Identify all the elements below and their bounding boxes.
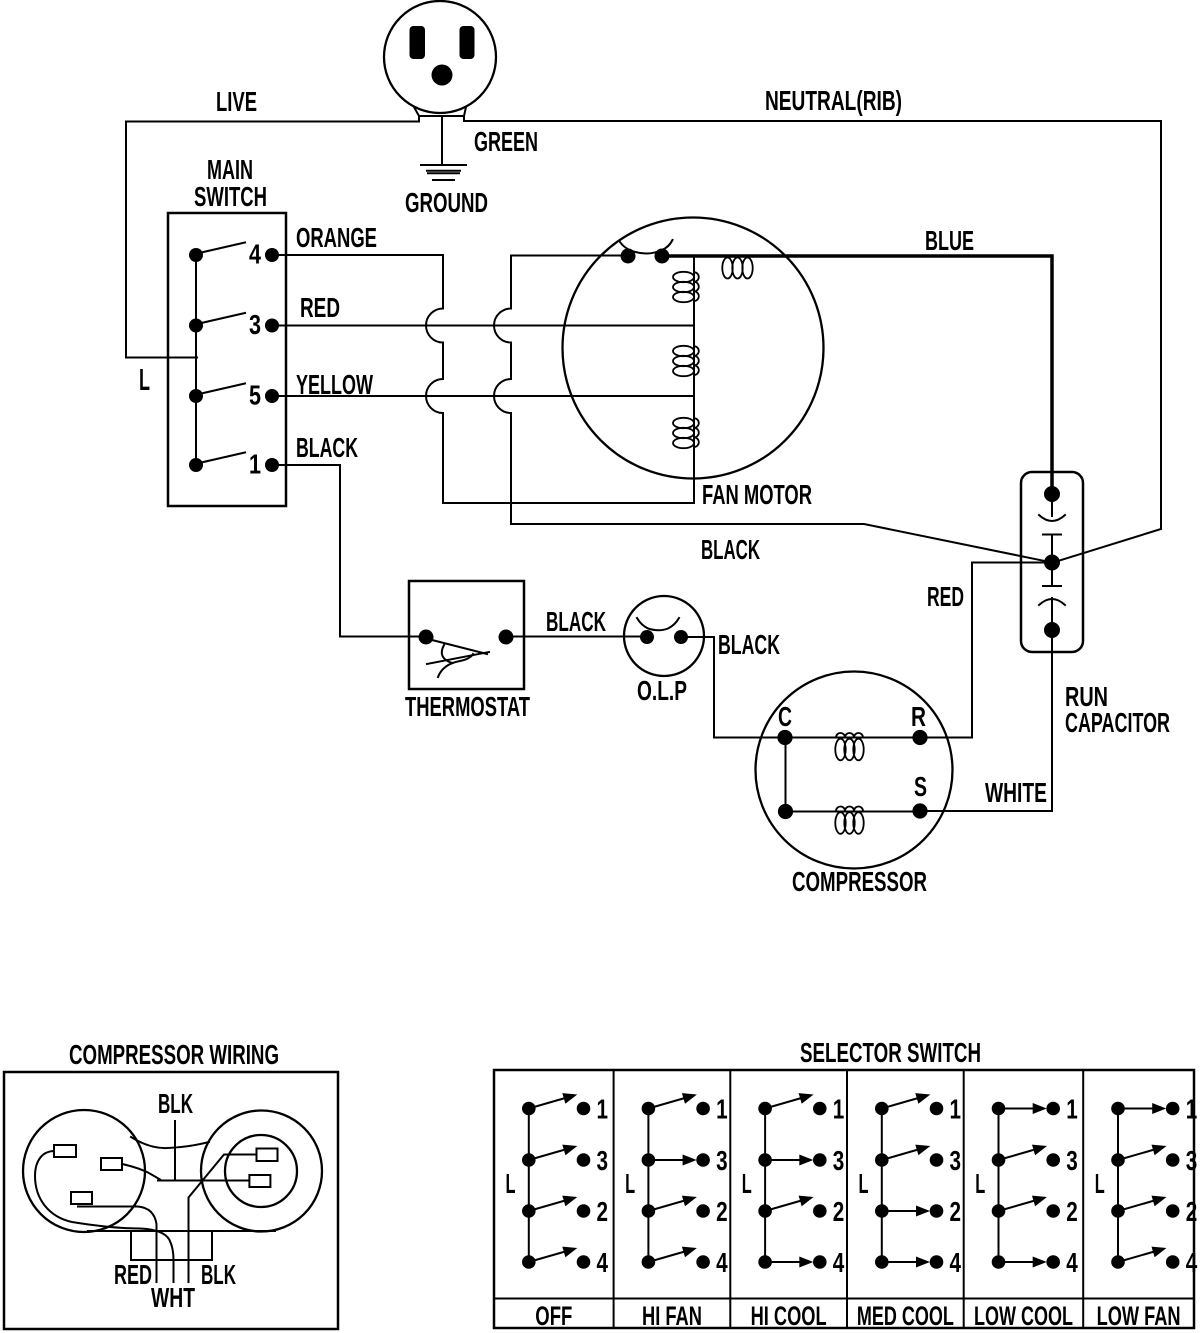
selector position MED COOL xyxy=(857,1093,961,1331)
run capacitor terminals and plates xyxy=(1044,486,1060,502)
svg-text:1: 1 xyxy=(1066,1093,1078,1124)
svg-text:HI COOL: HI COOL xyxy=(751,1301,827,1331)
compressor plug right inner circle xyxy=(225,1135,297,1207)
svg-text:ORANGE: ORANGE xyxy=(296,222,377,253)
wire BLACK (contact 1 to thermostat) xyxy=(272,465,426,637)
wire BLACK (fan motor switch to run capacitor middle, hops over red+yellow) xyxy=(494,256,1052,563)
selector position LOW COOL xyxy=(974,1093,1078,1331)
terminal lug bottom-left xyxy=(71,1192,92,1204)
svg-text:2: 2 xyxy=(1186,1196,1198,1227)
svg-text:GREEN: GREEN xyxy=(474,126,538,157)
svg-text:L: L xyxy=(1095,1168,1105,1199)
fan motor main winding line xyxy=(693,257,695,503)
svg-text:BLUE: BLUE xyxy=(925,225,974,256)
svg-text:1: 1 xyxy=(950,1093,962,1124)
wire LIVE from plug to main switch xyxy=(126,122,419,358)
svg-text:3: 3 xyxy=(249,309,261,340)
svg-text:3: 3 xyxy=(1066,1145,1078,1176)
wire BLACK thermostat to O.L.P xyxy=(506,636,647,638)
wire RED compressor R to run capacitor middle xyxy=(920,563,1052,738)
svg-text:L: L xyxy=(742,1168,752,1199)
plug body saddle curve xyxy=(131,1137,209,1148)
compressor start winding xyxy=(786,738,921,812)
svg-text:2: 2 xyxy=(833,1196,845,1227)
compressor wiring panel box xyxy=(4,1072,338,1329)
svg-text:RED: RED xyxy=(300,292,340,323)
plug body bottom line xyxy=(88,1230,275,1232)
thermostat box xyxy=(409,581,524,689)
svg-text:BLK: BLK xyxy=(201,1259,236,1290)
svg-text:1: 1 xyxy=(716,1093,728,1124)
compressor terminals C R S xyxy=(777,730,792,745)
svg-text:FAN MOTOR: FAN MOTOR xyxy=(702,479,812,510)
svg-text:3: 3 xyxy=(597,1145,609,1176)
svg-text:BLK: BLK xyxy=(158,1088,193,1119)
thermostat bimetal symbol xyxy=(432,640,487,654)
wire junction horizontal xyxy=(158,1180,249,1182)
fan motor internal thermal switch contacts xyxy=(621,249,636,264)
svg-text:L: L xyxy=(139,362,150,397)
svg-text:MED COOL: MED COOL xyxy=(857,1301,954,1331)
terminal lug right-top xyxy=(257,1149,278,1162)
svg-text:2: 2 xyxy=(950,1196,962,1227)
svg-text:SELECTOR SWITCH: SELECTOR SWITCH xyxy=(800,1037,981,1068)
svg-text:3: 3 xyxy=(1186,1145,1198,1176)
selector position OFF xyxy=(506,1093,609,1331)
svg-text:SWITCH: SWITCH xyxy=(194,181,267,212)
svg-text:RED: RED xyxy=(114,1259,152,1290)
svg-text:YELLOW: YELLOW xyxy=(296,369,373,400)
compressor plug left circle xyxy=(23,1110,145,1232)
svg-text:THERMOSTAT: THERMOSTAT xyxy=(405,691,530,722)
svg-text:HI FAN: HI FAN xyxy=(642,1301,702,1331)
compressor run winding C-R xyxy=(785,737,920,739)
svg-text:GROUND: GROUND xyxy=(405,187,488,218)
svg-text:L: L xyxy=(625,1168,635,1199)
svg-text:L: L xyxy=(975,1168,985,1199)
svg-text:3: 3 xyxy=(950,1145,962,1176)
power plug (wall outlet face) xyxy=(384,1,496,122)
compressor circle xyxy=(756,672,953,869)
wire YELLOW (contact 5 to fan motor winding tap) xyxy=(272,395,694,397)
fan motor winding coils xyxy=(673,272,694,282)
svg-text:COMPRESSOR WIRING: COMPRESSOR WIRING xyxy=(69,1039,279,1070)
wire from middle lug to junction xyxy=(122,1164,160,1180)
svg-text:4: 4 xyxy=(833,1247,845,1278)
svg-text:4: 4 xyxy=(716,1247,728,1278)
wire WHITE compressor S to run capacitor bottom xyxy=(920,630,1052,811)
svg-text:3: 3 xyxy=(716,1145,728,1176)
run capacitor body xyxy=(1021,472,1083,652)
selector switch table frame xyxy=(494,1070,1194,1328)
svg-text:1: 1 xyxy=(249,449,261,480)
svg-text:LOW FAN: LOW FAN xyxy=(1097,1301,1181,1331)
svg-text:RED: RED xyxy=(927,581,964,612)
svg-text:4: 4 xyxy=(1186,1247,1198,1278)
svg-text:2: 2 xyxy=(597,1196,609,1227)
svg-text:BLACK: BLACK xyxy=(546,606,606,637)
svg-text:LIVE: LIVE xyxy=(216,86,257,117)
wire BLACK O.L.P to compressor C xyxy=(681,637,785,738)
ground symbol xyxy=(421,116,466,180)
svg-text:BLACK: BLACK xyxy=(296,432,358,463)
main switch contacts and arms xyxy=(189,248,203,262)
cable clamp rectangle xyxy=(131,1231,212,1260)
wire RED from bottom-left lug xyxy=(78,1207,157,1283)
svg-text:1: 1 xyxy=(1186,1093,1198,1124)
svg-text:4: 4 xyxy=(249,239,261,270)
terminal lug middle xyxy=(101,1158,122,1170)
svg-text:LOW COOL: LOW COOL xyxy=(974,1301,1073,1331)
svg-text:4: 4 xyxy=(597,1247,609,1278)
svg-text:CAPACITOR: CAPACITOR xyxy=(1065,707,1170,738)
main switch common bus xyxy=(195,255,197,465)
wire BLUE (fan motor to run capacitor top) with coil xyxy=(662,256,1052,486)
svg-text:1: 1 xyxy=(597,1093,609,1124)
wire ORANGE (contact 4 to fan motor common, hops over red+yellow) xyxy=(272,255,694,503)
wire NEUTRAL(RIB) from plug to run capacitor xyxy=(464,121,1161,563)
svg-text:WHITE: WHITE xyxy=(985,777,1047,808)
svg-text:3: 3 xyxy=(833,1145,845,1176)
svg-text:BLACK: BLACK xyxy=(701,534,760,565)
wire RED (contact 3 to fan motor winding tap) xyxy=(272,325,694,327)
main switch box xyxy=(168,213,286,506)
wire BLK top vertical xyxy=(174,1121,176,1180)
wire BLK diagonal from right-top lug down xyxy=(189,1155,257,1283)
selector position LOW FAN xyxy=(1095,1093,1198,1331)
terminal lug top-left xyxy=(54,1145,76,1157)
compressor plug right outer circle xyxy=(201,1111,322,1232)
svg-text:4: 4 xyxy=(950,1247,962,1278)
svg-text:BLACK: BLACK xyxy=(718,629,780,660)
svg-text:WHT: WHT xyxy=(151,1282,195,1313)
wire WHT (curl around left circle to bottom) xyxy=(35,1151,174,1282)
svg-text:S: S xyxy=(914,771,927,802)
svg-text:4: 4 xyxy=(1066,1247,1078,1278)
O.L.P overload protector xyxy=(624,596,704,676)
svg-text:OFF: OFF xyxy=(535,1301,572,1331)
svg-text:L: L xyxy=(506,1168,516,1199)
svg-text:1: 1 xyxy=(833,1093,845,1124)
svg-text:2: 2 xyxy=(1066,1196,1078,1227)
terminal lug right-bottom xyxy=(249,1175,270,1187)
svg-text:L: L xyxy=(859,1168,869,1199)
svg-text:NEUTRAL(RIB): NEUTRAL(RIB) xyxy=(765,85,902,116)
svg-text:2: 2 xyxy=(716,1196,728,1227)
svg-text:R: R xyxy=(911,701,926,732)
fan motor circle xyxy=(563,218,824,479)
svg-text:O.L.P: O.L.P xyxy=(637,675,687,706)
svg-text:5: 5 xyxy=(249,380,261,411)
svg-text:C: C xyxy=(778,701,792,732)
svg-text:COMPRESSOR: COMPRESSOR xyxy=(792,866,927,897)
selector position HI COOL xyxy=(742,1093,845,1331)
selector position HI FAN xyxy=(625,1093,728,1331)
